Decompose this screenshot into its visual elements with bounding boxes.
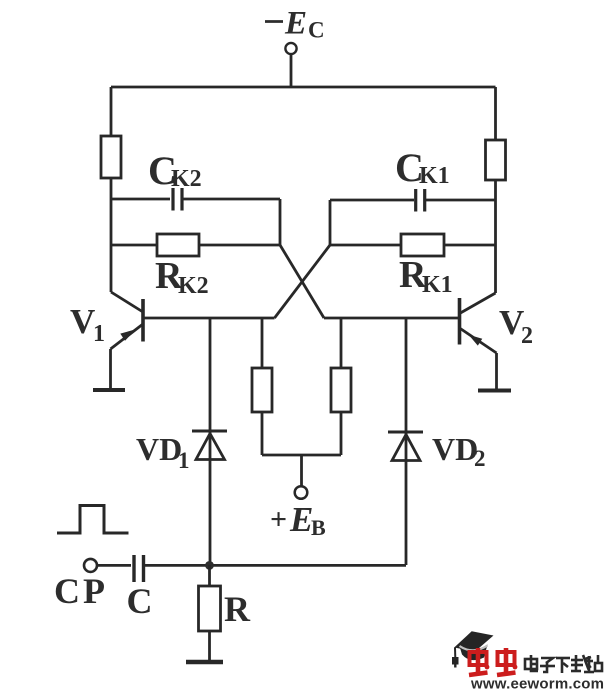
node junction (CP/R/VD1) — [205, 561, 214, 570]
wire cross diagonal right-to-left — [275, 245, 331, 318]
logo text 电子下载站 — [525, 655, 602, 673]
pulse waveform symbol — [57, 506, 129, 534]
svg-text:2: 2 — [474, 446, 486, 471]
resistor bias right (unlabelled) — [331, 368, 351, 412]
wire R branch upper — [208, 565, 211, 586]
wire right collector branch upper — [494, 87, 497, 140]
label +EB — [270, 500, 326, 540]
svg-text:www.eeworm.com: www.eeworm.com — [470, 676, 604, 689]
wire left collector branch lower — [110, 178, 113, 292]
wire RK1 left segment — [330, 244, 401, 247]
logo text 虫虫 (red worm characters) — [469, 648, 517, 675]
terminal CP circle — [84, 559, 97, 572]
wire bottom rail — [145, 564, 406, 567]
label RK1 — [399, 254, 453, 298]
wire CK2 left segment — [111, 198, 170, 201]
svg-text:C: C — [308, 18, 325, 43]
resistor right collector (unlabelled) — [486, 140, 506, 180]
wire RK2 left segment — [111, 244, 157, 247]
terminal +EB circle — [295, 486, 308, 499]
wire CK1 left segment — [330, 199, 414, 202]
wire RK1 right segment — [444, 244, 496, 247]
wire CK2 down stub — [279, 199, 282, 245]
wire CK1 right segment — [426, 199, 496, 202]
ground (V2 emitter) — [478, 389, 511, 393]
svg-text:1: 1 — [93, 321, 105, 347]
terminal -EC circle — [285, 43, 296, 54]
label VD1 — [136, 431, 190, 473]
wire -EC stub — [290, 54, 293, 87]
label -EC — [265, 6, 325, 43]
label CK2 — [148, 148, 202, 193]
wire VD2 branch — [405, 318, 408, 565]
svg-text:E: E — [284, 6, 307, 42]
svg-text:VD: VD — [432, 431, 478, 467]
svg-text:V: V — [70, 302, 95, 341]
svg-text:C: C — [127, 581, 153, 621]
wire V2 base rail — [324, 317, 460, 320]
capacitor CK1 — [416, 189, 425, 212]
svg-text:K1: K1 — [422, 272, 453, 298]
resistor RK2 — [157, 234, 199, 256]
wire EB join rail — [262, 454, 341, 457]
wire EB stub — [300, 455, 303, 487]
capacitor C — [134, 555, 144, 582]
svg-text:K1: K1 — [419, 163, 450, 189]
svg-text:VD: VD — [136, 431, 182, 467]
wire RK2 right segment — [199, 244, 280, 247]
capacitor CK2 — [173, 188, 182, 211]
wire cross diagonal left-to-right — [280, 245, 324, 318]
wire bias resistor right branch upper — [340, 318, 343, 368]
label VD2 — [432, 431, 486, 471]
resistor R — [199, 586, 221, 631]
svg-text:CP: CP — [54, 571, 108, 611]
diode VD2 — [388, 432, 423, 461]
svg-text:E: E — [289, 500, 313, 539]
diode VD1 — [192, 431, 227, 460]
label CK1 — [395, 145, 450, 190]
resistor bias left (unlabelled) — [252, 368, 272, 412]
wire bias resistor left branch lower — [261, 412, 264, 455]
wire right collector branch lower — [494, 180, 497, 293]
wire CK2 right segment — [184, 198, 281, 201]
ground (R bottom) — [186, 660, 223, 665]
logo graduation cap — [452, 631, 494, 667]
resistor RK1 — [401, 234, 444, 256]
svg-text:2: 2 — [521, 323, 533, 349]
label V1 — [70, 302, 105, 347]
ground (V1 emitter) — [93, 388, 125, 392]
wire top rail — [111, 86, 496, 89]
wire left collector branch upper — [110, 87, 113, 136]
svg-text:1: 1 — [178, 448, 190, 473]
svg-text:B: B — [311, 515, 326, 540]
svg-text:+: + — [270, 503, 287, 536]
wire V1 base rail — [143, 317, 275, 320]
wire bias resistor right branch lower — [340, 412, 343, 455]
svg-text:K2: K2 — [171, 166, 202, 192]
svg-text:R: R — [224, 589, 251, 629]
transistor V2 — [460, 293, 497, 389]
wire CP to C — [97, 564, 131, 567]
svg-text:K2: K2 — [178, 273, 209, 299]
transistor V1 — [111, 292, 144, 389]
label RK2 — [155, 255, 209, 299]
resistor left collector (unlabelled) — [101, 136, 121, 178]
wire bias resistor left branch upper — [261, 318, 264, 368]
wire CK1 down stub — [329, 200, 332, 245]
wire R branch lower — [208, 631, 211, 661]
label V2 — [499, 303, 533, 349]
wire VD1 branch — [209, 318, 212, 565]
